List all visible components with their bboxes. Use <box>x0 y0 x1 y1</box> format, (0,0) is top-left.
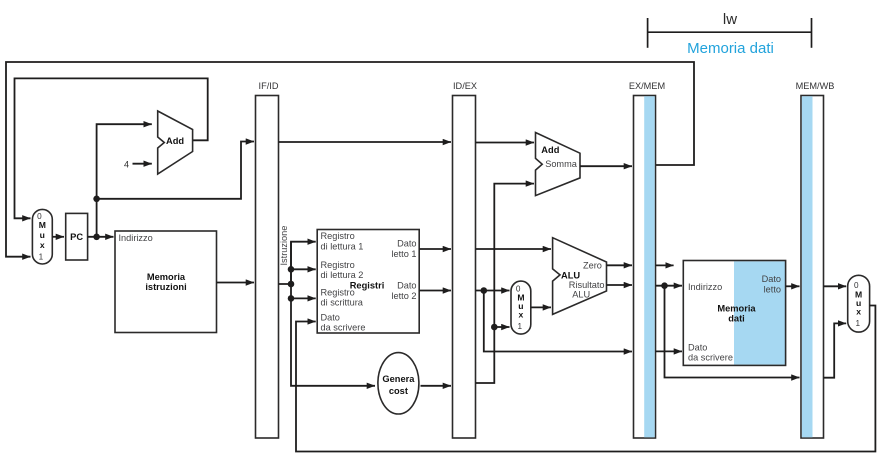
wire Dato letto MEM/WB to mux M3 input 0 <box>824 285 847 287</box>
node Dato letto 2 junction <box>481 287 488 294</box>
svg-text:Genera: Genera <box>382 374 415 384</box>
svg-text:Dato: Dato <box>762 274 781 284</box>
wire ALU result MEM/WB to mux M3 input 1 <box>824 323 847 377</box>
svg-text:IF/ID: IF/ID <box>259 81 279 91</box>
svg-text:Dato: Dato <box>397 281 416 291</box>
node bus junction scrittura <box>288 295 295 302</box>
wire instruction bus from IF/ID <box>279 242 316 284</box>
wire Dato letto 2 ID/EX to mux M2 input 0 <box>476 290 510 292</box>
svg-text:Zero: Zero <box>583 260 602 270</box>
svg-text:letto 2: letto 2 <box>391 291 416 301</box>
svg-text:PC: PC <box>70 232 83 242</box>
wire PC out to Memoria istruzioni Indirizzo <box>88 236 114 238</box>
svg-text:M: M <box>39 220 46 230</box>
wire branch feedback EX/MEM to mux M1 input 1 <box>6 62 694 257</box>
register EX/MEM (read half highlighted) <box>629 81 665 438</box>
wire Dato letto 2 to ID/EX <box>419 290 451 292</box>
wire Risultato ALU to EX/MEM <box>607 284 633 286</box>
wire bus to Registro di lettura 2 <box>291 268 316 270</box>
svg-text:Indirizzo: Indirizzo <box>119 233 153 243</box>
svg-text:x: x <box>856 306 861 316</box>
svg-text:di scrittura: di scrittura <box>321 298 364 308</box>
node ALU result junction <box>661 282 668 289</box>
memory Memoria dati (read port highlighted) <box>683 261 785 366</box>
svg-text:Memoria dati: Memoria dati <box>687 40 774 57</box>
register ID/EX <box>453 81 478 438</box>
svg-text:u: u <box>40 230 45 240</box>
node offset junction <box>491 324 498 331</box>
svg-text:1: 1 <box>856 319 861 328</box>
svg-text:Registro: Registro <box>321 287 355 297</box>
wire PC value ID/EX to adder Somma <box>476 142 535 144</box>
wire Zero to EX/MEM <box>607 264 633 266</box>
svg-text:Registro: Registro <box>321 260 355 270</box>
wire Dato letto 2 bypass to EX/MEM <box>484 291 632 352</box>
wire offset ID/EX up to adder Somma <box>476 184 535 383</box>
wire PC up to adder Add <box>97 124 152 237</box>
svg-text:1: 1 <box>518 322 523 331</box>
svg-text:Dato: Dato <box>688 342 707 352</box>
svg-text:di lettura 1: di lettura 1 <box>321 242 364 252</box>
wire Dato letto 1 ID/EX to ALU <box>476 248 552 250</box>
ellipse Genera cost <box>378 353 419 414</box>
mux M3 (write-back select) <box>848 275 870 332</box>
wire Genera cost to ID/EX <box>421 385 452 387</box>
register IF/ID <box>256 81 279 438</box>
svg-text:Indirizzo: Indirizzo <box>688 282 722 292</box>
wire PC value IF/ID to ID/EX <box>279 141 452 143</box>
wire write data EX/MEM to Memoria dati <box>656 350 683 352</box>
svg-text:4: 4 <box>124 160 129 170</box>
svg-text:ID/EX: ID/EX <box>453 81 477 91</box>
node bus junction instruction in <box>288 281 295 288</box>
svg-text:x: x <box>519 310 524 320</box>
mux M1 (PC source select) <box>32 209 52 264</box>
wire write-back mux M3 to Registri Dato da scrivere <box>296 306 875 452</box>
bracket lw <box>648 11 812 48</box>
wire adder Somma to EX/MEM <box>580 165 632 167</box>
node bus junction lettura2 <box>288 266 295 273</box>
svg-text:1: 1 <box>39 253 44 262</box>
wire instruction Memoria istruzioni to IF/ID <box>217 282 255 284</box>
svg-text:Istruzione: Istruzione <box>279 226 289 266</box>
wire ALU result EX/MEM to MEM/WB <box>665 286 800 378</box>
wire PC value to IF/ID <box>97 142 254 199</box>
mux M2 (ALU operand select) <box>511 281 531 334</box>
svg-text:Registri: Registri <box>350 280 385 290</box>
svg-text:Dato: Dato <box>321 312 340 322</box>
register file Registri <box>317 230 419 334</box>
svg-text:dati: dati <box>728 314 745 324</box>
register MEM/WB (write half highlighted) <box>796 81 835 438</box>
svg-text:di lettura 2: di lettura 2 <box>321 270 364 280</box>
adder Add Somma <box>536 133 581 196</box>
svg-text:x: x <box>40 240 45 250</box>
svg-text:lw: lw <box>723 11 737 28</box>
wire instruction bus down <box>291 242 375 386</box>
adder Add <box>158 111 193 174</box>
wire Zero stub out of EX/MEM <box>656 264 674 266</box>
svg-text:Memoria: Memoria <box>717 303 756 313</box>
svg-text:istruzioni: istruzioni <box>145 282 186 292</box>
svg-text:ALU: ALU <box>561 270 580 280</box>
svg-text:da scrivere: da scrivere <box>321 323 366 333</box>
alu ALU <box>553 238 607 315</box>
svg-text:Memoria: Memoria <box>147 272 186 282</box>
svg-text:letto 1: letto 1 <box>391 249 416 259</box>
svg-text:EX/MEM: EX/MEM <box>629 81 665 91</box>
svg-text:Add: Add <box>541 145 559 155</box>
svg-text:ALU: ALU <box>572 289 590 299</box>
svg-text:letto: letto <box>764 284 781 294</box>
node PC branch junction <box>93 196 100 203</box>
wire mux M2 to ALU <box>531 306 551 308</box>
wire offset branch to mux M2 input 1 <box>494 326 509 328</box>
node PC output junction <box>93 234 100 241</box>
svg-text:da scrivere: da scrivere <box>688 353 733 363</box>
register PC <box>66 213 88 260</box>
wire PC+4 feedback Add output to mux M1 input 0 <box>15 78 208 218</box>
wire 4 to adder <box>133 163 152 165</box>
wire mux M1 to PC <box>52 236 64 238</box>
svg-text:MEM/WB: MEM/WB <box>796 81 835 91</box>
wire bus to Registro di scrittura <box>291 297 316 299</box>
wire Dato letto 1 to ID/EX <box>419 248 451 250</box>
svg-text:Add: Add <box>166 136 184 146</box>
wire address EX/MEM to Memoria dati Indirizzo <box>656 285 683 287</box>
svg-text:Registro: Registro <box>321 231 355 241</box>
svg-text:Dato: Dato <box>397 239 416 249</box>
svg-text:cost: cost <box>389 386 408 396</box>
svg-text:Somma: Somma <box>545 159 578 169</box>
wire Dato letto to MEM/WB <box>786 285 800 287</box>
memory Memoria istruzioni <box>115 231 217 333</box>
